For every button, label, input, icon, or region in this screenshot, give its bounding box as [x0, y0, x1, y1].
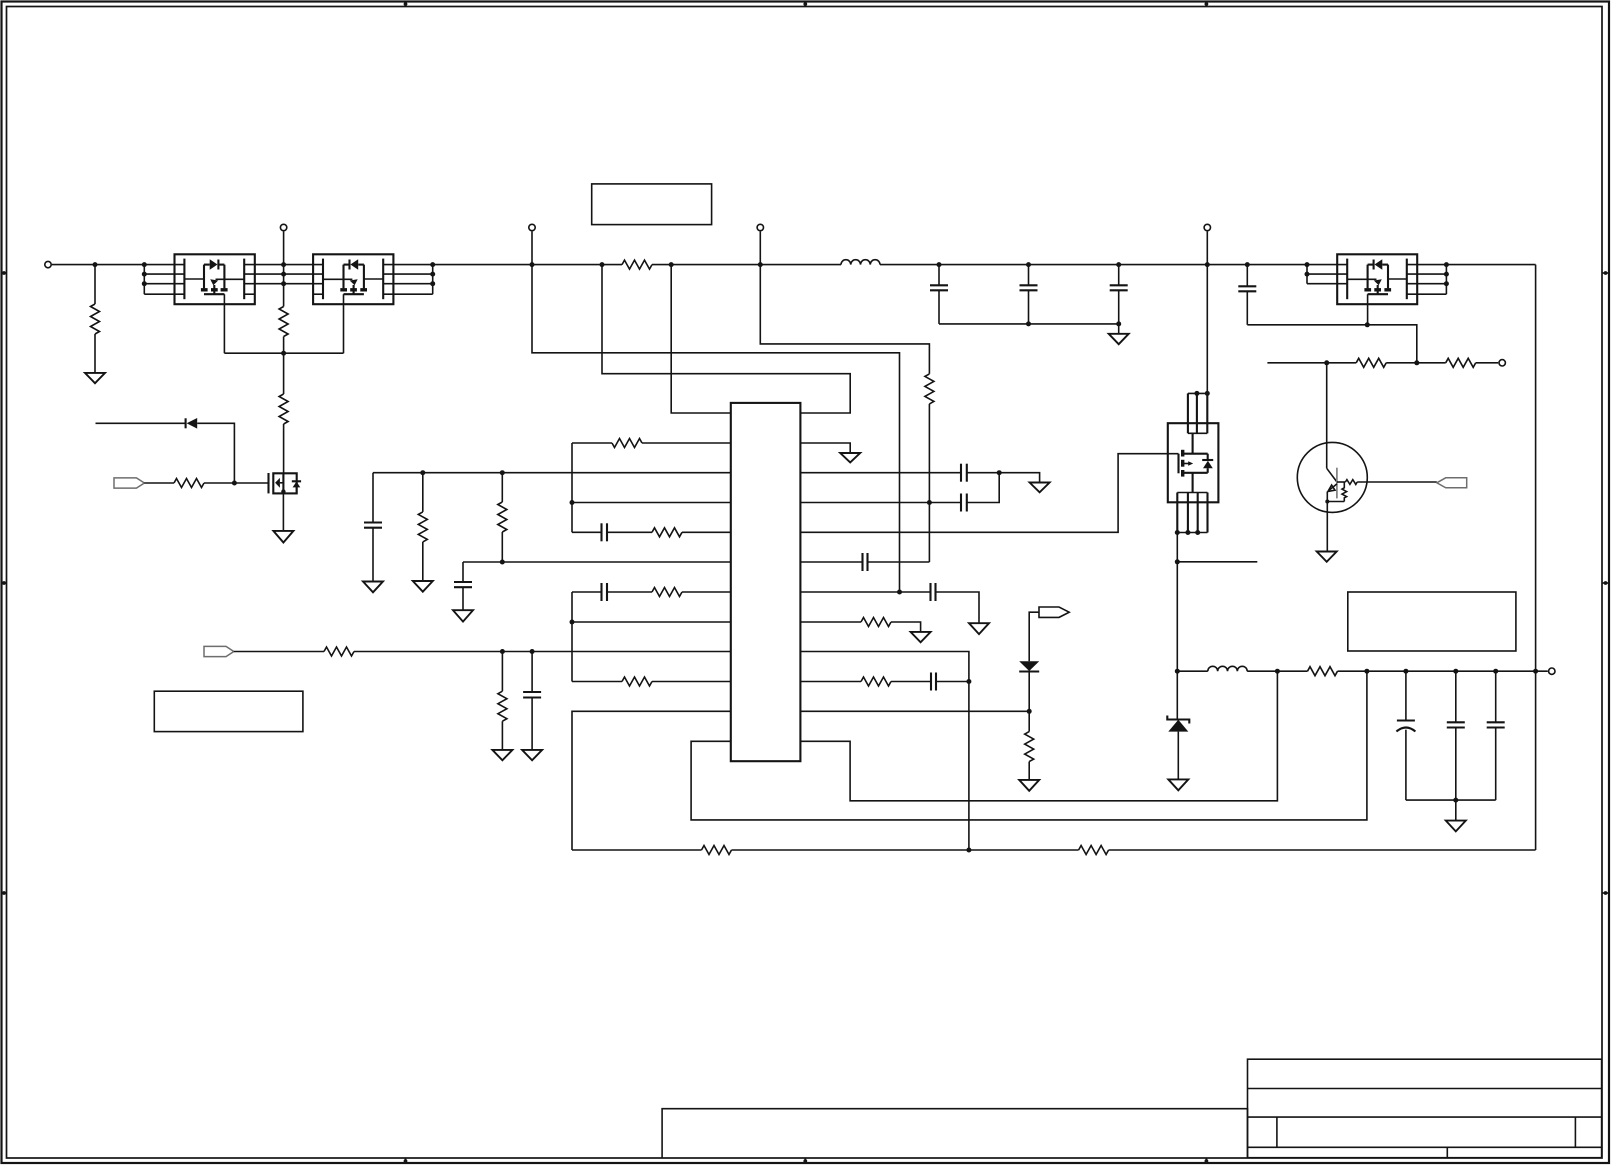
wire diode stub [96, 422, 186, 424]
wire R7 to IC pin row651 [354, 651, 731, 653]
RIGHTBLOCK [1167, 358, 1555, 831]
wire pin741 left U-loop [691, 671, 1367, 820]
ground GND12 [911, 632, 931, 642]
capacitor C4 bootstrap [1238, 265, 1256, 325]
wire R6 to Q2 gate [204, 482, 269, 484]
junction dots row363 [1324, 360, 1329, 365]
border tick left 1 [1, 271, 7, 275]
border tick left 2 [1, 581, 7, 585]
junction dot row850 [966, 848, 971, 853]
mosfet package U3 right mirrored [1307, 254, 1446, 304]
resistor R16 row850 [702, 846, 732, 855]
wire Q2 source down [282, 493, 284, 531]
ground GND7 [413, 581, 433, 592]
wire pin532 left with RC [572, 523, 731, 541]
inductor L2 output [1208, 666, 1247, 671]
resistor R14 pin681 right with cap [800, 673, 969, 691]
wire pin413 right over-the-top [602, 265, 850, 413]
flag NET4 base [1437, 478, 1467, 488]
junction dots cap bus [1026, 321, 1031, 326]
ground GND1 [85, 373, 105, 383]
terminal J5 fet4 [1204, 224, 1210, 230]
note box bottom wide [662, 1109, 1247, 1158]
diode D1 [186, 418, 198, 429]
capacitor C3 rail [1110, 265, 1128, 324]
wire bootstrap run [1247, 325, 1417, 363]
wire pin503 right with cap [800, 473, 999, 512]
wire U3 gate down [1367, 294, 1369, 325]
junction dots rail [93, 262, 98, 267]
transistor Q2 [269, 473, 302, 493]
border tick top 3 [1205, 1, 1209, 7]
wire J3 down over IC [532, 232, 900, 593]
wire U1 source down [223, 294, 225, 353]
wire cap bus ground stub [1118, 324, 1120, 334]
resistor R11 divider [498, 473, 507, 562]
wire stub net [1177, 561, 1257, 563]
capacitor C6 to ground [364, 473, 382, 582]
capacitor C7 to ground [454, 562, 472, 610]
border tick bottom 3 [1205, 1158, 1209, 1164]
wire row363 [1267, 362, 1356, 364]
wire pin592 right with cap [800, 583, 979, 623]
junction dot q2 internal [281, 489, 285, 493]
wire rail segment B [244, 264, 323, 266]
label box B3 right [1348, 592, 1516, 651]
ground GND11 [969, 623, 989, 634]
ground GND10 [1030, 483, 1050, 493]
wire row363 seg3 [1476, 362, 1499, 364]
border tick right 2 [1602, 581, 1609, 585]
ground GND3 [273, 531, 293, 543]
wire out gnd stub [1455, 800, 1457, 821]
wire gate bus vertical [283, 232, 285, 307]
ICBLOCK [363, 265, 1536, 855]
wire J4 down [760, 232, 929, 374]
resistor R13 pin622 right [800, 618, 920, 632]
border tick right 1 [1602, 271, 1609, 275]
wire out rail seg2 [1247, 670, 1307, 672]
wire U2 source down [343, 294, 345, 353]
wire zener to ground [1177, 732, 1179, 780]
wire pin413 left [671, 265, 731, 413]
resistor R10 to ground [418, 473, 427, 581]
wire gate bus mid [283, 337, 285, 395]
diode D2 [1019, 661, 1039, 671]
terminal J2 gate node [280, 224, 286, 230]
wire NET3 to D2 [1029, 612, 1039, 661]
capacitor C5 [523, 652, 541, 750]
terminal J4 mid [757, 224, 763, 230]
wire rail segment F [1407, 264, 1536, 266]
title block row line 3 [1248, 1146, 1602, 1148]
title block outline [1248, 1059, 1602, 1158]
wire pin473 left [373, 472, 731, 474]
resistor R7 [324, 647, 354, 656]
border tick top 1 [404, 1, 408, 7]
inductor L1 rail series [841, 260, 880, 265]
wire pin532 right to U4 gate [800, 454, 1178, 533]
wire NET2 to R7 [234, 651, 324, 653]
capacitor C10 output [1487, 671, 1505, 800]
junction dot row622 [570, 620, 575, 625]
junction dot bootstrap gate [1365, 322, 1370, 327]
wire flag to R6 [144, 482, 174, 484]
junction dots row473 [420, 470, 425, 475]
wire D2 to pin711 [1028, 672, 1030, 732]
RAIL [45, 224, 1536, 850]
border tick right 3 [1602, 891, 1609, 895]
junction dot row592 [897, 590, 902, 595]
ground GND14 [1168, 779, 1188, 790]
ground GND8 [453, 610, 473, 621]
resistor R12 pin681 [572, 677, 731, 686]
wire comp bus seg2 [571, 592, 573, 682]
junction dots row503 [570, 500, 575, 505]
ground GND16 [1317, 552, 1337, 562]
wire rail right corner down [1535, 265, 1537, 850]
wire rail segment E [880, 264, 1347, 266]
ground GND4 [492, 750, 512, 760]
resistor R5 vertical [925, 374, 934, 404]
resistor R6 [174, 479, 204, 488]
title block row line 2 [1248, 1116, 1602, 1118]
wire sense row850 [572, 849, 1536, 851]
junction dot q2 gate [232, 481, 237, 486]
capacitor C8 polarized [1396, 671, 1415, 800]
wire row363 seg2 [1386, 362, 1446, 364]
resistor R1 rail series [622, 260, 652, 269]
junction dot row681 [966, 679, 971, 684]
junction dots out rail [1175, 669, 1180, 674]
wire U1-U2 source tie [224, 352, 343, 354]
title block divider 1 [1276, 1117, 1278, 1147]
terminal J6 output [1549, 668, 1555, 674]
wire pin592 left with RC [572, 583, 731, 601]
junction dots fet pin buses [142, 272, 147, 277]
wire R5 to cap row [928, 404, 930, 562]
ground GND9 [840, 453, 860, 462]
transistor Q1 digital [1297, 363, 1437, 552]
border tick bottom 2 [803, 1158, 807, 1164]
border tick top 2 [803, 1, 807, 7]
terminal J7 sense [1499, 360, 1505, 366]
resistor R18 output series [1308, 667, 1338, 676]
ground GND2 [1109, 334, 1129, 344]
flag NET1 input [114, 478, 144, 488]
wire pin443 right to ground [800, 443, 850, 453]
label box B2 left [154, 691, 303, 731]
ground GND13 [1019, 780, 1039, 791]
wire J5 down to U4 [1206, 232, 1208, 394]
wire pin562 right with cap [800, 553, 929, 571]
resistor R19 [1356, 358, 1386, 367]
junction dot row711 [1027, 709, 1032, 714]
wire pin503 left [572, 502, 731, 504]
mosfet package U1 left [144, 254, 283, 304]
LEFTBLOCK [96, 418, 731, 760]
label box B1 top [592, 184, 712, 225]
wire rail segment A [52, 264, 184, 266]
capacitor C2 rail [1020, 265, 1038, 324]
flag NET3 [1039, 607, 1069, 617]
junction dots U4 pins [1194, 391, 1199, 396]
wire pin562 left [463, 561, 731, 563]
wire out rail seg3 [1338, 670, 1548, 672]
resistor R8 pulldown [498, 652, 507, 750]
wire pin741 right U-loop [800, 671, 1277, 801]
junction dots row651 [500, 649, 505, 654]
junction dot q1 emitter [1325, 500, 1329, 504]
mosfet package U4 vertical [1168, 393, 1219, 532]
wire pin473 right with cap [800, 464, 1039, 483]
wire rail segment D [652, 264, 841, 266]
resistor R20 [1446, 358, 1476, 367]
terminal J3 mid [529, 224, 535, 230]
flag NET2 enable input [204, 646, 234, 656]
ground GND15 [1446, 821, 1466, 832]
capacitor C1 rail [930, 265, 948, 324]
resistor R15 pulldown [1025, 732, 1034, 780]
resistor R17 row850 [1079, 846, 1109, 855]
resistor R9 pin443 [572, 439, 731, 448]
wire U4 source down [1176, 533, 1178, 720]
junction dot row562 [500, 560, 505, 565]
ground GND5 [522, 750, 542, 760]
border tick left 3 [1, 891, 7, 895]
wire cap bottom bus [939, 323, 1119, 325]
title block row line 1 [1248, 1088, 1602, 1090]
wire pin711 left [572, 711, 731, 850]
ic U5 controller [731, 403, 801, 761]
wire pin651 right [800, 652, 969, 851]
wire cap bottom bus out [1406, 799, 1496, 801]
zener D3 [1167, 716, 1189, 732]
wire to Q2 drain [283, 424, 285, 473]
junction dot gate tie [281, 351, 286, 356]
wire pin622 left [572, 621, 731, 623]
wire pin711 right [800, 710, 1029, 712]
wire comp bus seg1 [571, 443, 573, 532]
capacitor C9 output [1447, 671, 1465, 800]
resistor R3 gate upper [279, 307, 288, 337]
wire out rail start [1177, 670, 1208, 672]
border tick bottom 1 [404, 1158, 408, 1164]
mosfet package U2 left mirrored [284, 254, 433, 304]
wire D1 to gate node [197, 423, 234, 483]
title block divider 2 [1574, 1117, 1576, 1147]
terminal J1 input left [45, 261, 51, 267]
resistor R4 gate lower [279, 394, 288, 424]
ground GND6 [363, 582, 383, 593]
title block divider 3 [1446, 1147, 1448, 1157]
wire rail segment C [383, 264, 622, 266]
resistor R2 rail to ground [91, 265, 100, 373]
